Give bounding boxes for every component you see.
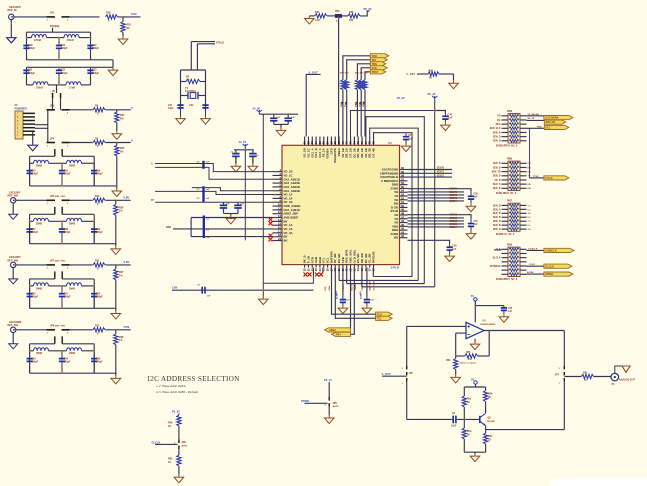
svg-text:2N4B: 2N4B: [69, 165, 75, 168]
wire TP45 upper: [365, 72, 370, 80]
wire opamp gnd stub: [474, 339, 476, 342]
flag CLK A: [544, 264, 572, 268]
junction: [58, 59, 60, 61]
svg-text:51: 51: [401, 200, 404, 204]
pin 36 of U4 (bottom): [365, 265, 367, 268]
svg-text:24: 24: [318, 268, 322, 271]
wire A_OUT net down: [406, 326, 408, 366]
pin 28 of U4 (bottom): [334, 265, 336, 268]
wire emitter out: [486, 429, 565, 431]
wire to C56: [468, 189, 471, 192]
resistor R25: [115, 145, 119, 156]
wire opamp output: [484, 330, 564, 332]
wire bus d horizontal: [362, 286, 435, 288]
svg-text:SEN72: SEN72: [437, 175, 445, 177]
svg-text:62: 62: [306, 141, 310, 144]
pin 2 of J1: [23, 116, 35, 118]
pin 4 of U4 (left): [273, 182, 283, 184]
svg-text:SDA: SDA: [328, 285, 331, 290]
wire: [463, 419, 465, 428]
wire stub: [52, 28, 54, 32]
wire: [456, 355, 465, 357]
wire: [81, 84, 91, 86]
wire: [115, 244, 117, 247]
svg-text:SEN_B: SEN_B: [493, 188, 501, 190]
svg-text:SDB82: SDB82: [450, 221, 458, 223]
power 5V transistor: [474, 381, 477, 384]
pin 18 of U4 (left): [273, 236, 283, 238]
wire stub f: [322, 268, 324, 273]
svg-text:13: 13: [278, 214, 281, 218]
wire bottom rail to ground: [94, 307, 116, 309]
pin 1 of J1: [23, 113, 35, 115]
svg-text:55: 55: [401, 185, 404, 189]
pin 52 of U4 (right): [400, 199, 408, 201]
capacitor C20: [87, 38, 93, 60]
wire crystal right: [205, 70, 207, 108]
wire to ground: [94, 185, 117, 187]
wire FB junction down to U4 pin: [338, 18, 340, 146]
wire RN8 row 5 left: [502, 183, 509, 185]
svg-text:10uF: 10uF: [451, 426, 457, 428]
wire: [47, 37, 65, 39]
svg-text:1M: 1M: [186, 79, 189, 82]
wire filter A top rail: [27, 31, 91, 33]
wire RN9 row 3 right: [520, 127, 527, 129]
pin 11 of U4 (left): [273, 209, 283, 211]
wire filter top rail left: [30, 278, 55, 280]
wire to connector: [594, 376, 611, 378]
capacitor C25: [59, 163, 65, 186]
svg-text:400pF: 400pF: [64, 172, 71, 175]
svg-text:TB: TB: [528, 176, 531, 178]
svg-text:SDB70: SDB70: [450, 189, 458, 191]
resistor R60: [345, 80, 349, 90]
wire RN9 row 5 right: [520, 136, 527, 138]
flag 3.3V NENA: [544, 116, 573, 120]
wire to ground stub: [91, 59, 114, 61]
svg-text:R58: R58: [349, 11, 354, 14]
svg-text:5V: 5V: [471, 377, 474, 381]
wire RN9 row 2 right: [520, 123, 527, 125]
wire: [112, 60, 114, 68]
wire RN8 row 2 right: [520, 171, 527, 173]
svg-text:20: 20: [303, 268, 307, 271]
capacitor C30: [27, 286, 33, 308]
junction: [262, 289, 264, 291]
wire bus a horizontal: [339, 279, 418, 281]
svg-text:100pF: 100pF: [31, 296, 38, 299]
jumper JP4: [47, 142, 70, 144]
capacitor C26: [91, 163, 97, 186]
svg-text:SENSARRAY_NC_9: SENSARRAY_NC_9: [496, 145, 518, 148]
pin 66 of U4 (top): [323, 137, 325, 146]
wire: [342, 15, 348, 17]
wire: [485, 444, 487, 452]
wire filter left edge: [29, 279, 31, 308]
svg-text:48: 48: [401, 211, 404, 215]
resistor network RN6: [508, 247, 520, 276]
wire RN8 row 3 left: [502, 175, 509, 177]
wire: [280, 124, 282, 127]
wire filter left edge: [29, 214, 31, 243]
svg-text:SEN71: SEN71: [437, 172, 445, 174]
capacitor C24: [27, 163, 33, 186]
inductor L11: [34, 348, 49, 351]
svg-text:1uF: 1uF: [508, 311, 513, 313]
svg-text:RN9: RN9: [507, 110, 513, 113]
capacitor C47: [285, 118, 292, 121]
svg-text:26: 26: [326, 268, 330, 271]
wire run join: [47, 110, 49, 143]
wire RN6 row 5 left: [502, 269, 509, 271]
svg-text:1nF: 1nF: [206, 237, 211, 239]
svg-text:A_OUT: A_OUT: [309, 70, 318, 74]
flag TCL: [376, 316, 393, 320]
wire xtal a: [191, 41, 215, 43]
pin 75 of U4 (top): [357, 137, 359, 146]
wire: [49, 162, 67, 164]
wire bias top rail: [464, 386, 485, 388]
svg-text:OPA4330ADBV: OPA4330ADBV: [480, 323, 496, 326]
ground: [449, 81, 459, 89]
wire to flag ACB: [527, 273, 544, 275]
wire: [49, 220, 67, 222]
flag A6N4: [325, 328, 351, 332]
pin 37 of U4 (bottom): [369, 265, 371, 268]
svg-text:SEN_B: SEN_B: [493, 217, 501, 219]
svg-text:VD_B: VD_B: [494, 180, 500, 182]
wire bus H1 to PA_3V: [351, 111, 435, 137]
svg-text:BAT_FRG: BAT_FRG: [55, 260, 65, 263]
svg-text:A_OUT: A_OUT: [382, 372, 391, 376]
svg-text:5 CLK: 5 CLK: [545, 176, 553, 180]
wire filter top rail right: [62, 278, 94, 280]
svg-text:C60: C60: [508, 308, 513, 310]
wire to C58: [408, 240, 450, 244]
wire filter bottom rail: [30, 372, 95, 374]
wire: [105, 142, 130, 144]
svg-text:2K: 2K: [467, 401, 470, 404]
pin 32 of U4 (bottom): [350, 265, 352, 268]
pin 74 of U4 (top): [353, 137, 355, 146]
inductor L3: [33, 82, 48, 85]
svg-text:1K: 1K: [488, 438, 491, 441]
wire: [237, 202, 239, 205]
inductor L6: [67, 160, 82, 163]
svg-text:42: 42: [401, 234, 404, 238]
pin 61 of U4 (top): [304, 137, 306, 146]
junction emitter: [485, 429, 487, 431]
pin 42 of U4 (right): [400, 237, 408, 239]
svg-text:1nF: 1nF: [206, 189, 211, 191]
svg-text:SEN_B: SEN_B: [493, 184, 501, 186]
wire to C44: [435, 111, 446, 113]
resistor R11: [93, 263, 105, 267]
wire rail: [62, 155, 94, 157]
wire: [328, 382, 330, 397]
wire: [116, 186, 118, 189]
wire filter B top rail: [27, 66, 114, 68]
svg-text:RB8: RB8: [166, 226, 171, 229]
pin 54 of U4 (right): [400, 191, 408, 193]
svg-text:37: 37: [368, 268, 372, 271]
wire filter right: [93, 156, 95, 186]
svg-text:100pF: 100pF: [31, 172, 38, 175]
svg-text:100pF: 100pF: [96, 360, 103, 363]
svg-text:BLKTB: BLKTB: [352, 283, 354, 291]
wire bottom rail to ground: [94, 243, 116, 245]
wire crystal left: [180, 70, 182, 108]
wire: [70, 109, 93, 111]
wire: [115, 265, 117, 269]
resistor R53 feedback: [465, 354, 478, 358]
svg-text:TP45: TP45: [537, 126, 543, 129]
wire J1 to ground: [32, 132, 34, 145]
svg-text:47: 47: [401, 215, 404, 219]
svg-text:A2_8V: A2_8V: [253, 107, 261, 110]
svg-text:5-8B/CLK: 5-8B/CLK: [545, 249, 557, 253]
ground opamp: [470, 342, 480, 350]
wire PA_3V vertical: [434, 100, 436, 287]
wire: [115, 308, 117, 311]
wire: [70, 264, 93, 266]
jumper JP6: [47, 200, 70, 202]
svg-text:100pF: 100pF: [96, 172, 103, 175]
svg-text:P2_6V: P2_6V: [397, 96, 405, 100]
wire A_OUT: [382, 375, 407, 377]
svg-text:5V: 5V: [471, 294, 474, 298]
svg-text:45: 45: [401, 223, 404, 227]
wire TP41 upper: [343, 56, 370, 80]
svg-text:SDB73: SDB73: [450, 198, 458, 200]
resistor network RN7: [508, 203, 520, 231]
pin 24 of U4 (bottom): [319, 265, 321, 268]
svg-text:V5_5BLAB: V5_5BLAB: [528, 113, 540, 116]
pin 34 of U4 (bottom): [357, 265, 359, 268]
power A2_8V tap1: [253, 107, 263, 114]
wire GLCLK: [155, 443, 177, 445]
wire junction to bottom rail: [115, 280, 117, 308]
capacitor C18: [23, 38, 29, 60]
wire: [181, 81, 187, 83]
svg-text:C42: C42: [189, 104, 194, 107]
svg-text:VD: VD: [497, 116, 501, 118]
svg-text:SDB80: SDB80: [450, 215, 458, 217]
svg-text:JP9: JP9: [182, 441, 187, 444]
wire RN8 row 0 left: [502, 162, 509, 164]
svg-text:58: 58: [401, 174, 404, 178]
power 5V opamp: [474, 298, 477, 301]
wire out: [564, 376, 581, 378]
wire filter A right: [90, 32, 92, 60]
X marks unused pins left 2: [269, 234, 273, 242]
pin 67 of U4 (top): [327, 137, 329, 146]
svg-text:54: 54: [401, 189, 404, 193]
junction: [61, 285, 63, 287]
flag 5-8B CLK: [544, 248, 574, 252]
svg-text:0.8V: 0.8V: [131, 12, 137, 16]
pin 30 of U4 (bottom): [342, 265, 344, 268]
wire filter left edge: [29, 344, 31, 373]
svg-text:75: 75: [356, 141, 360, 144]
wire: [82, 350, 95, 352]
capacitor C46: [270, 118, 277, 121]
capacitor C61: [452, 416, 458, 424]
wire RN7 row 1 left: [502, 208, 509, 210]
jumper JP8: [47, 329, 70, 331]
wire U4 left row E: [155, 201, 272, 203]
wire jumper to base: [406, 381, 408, 419]
pin 62 of U4 (top): [307, 137, 309, 146]
wire stub c: [372, 268, 374, 277]
resistor R61: [355, 80, 359, 90]
pin 63 of U4 (top): [311, 137, 313, 146]
svg-text:REF_INA: REF_INA: [8, 324, 19, 327]
svg-text:3.3V NENA: 3.3V NENA: [545, 116, 559, 120]
resistor R27: [114, 269, 118, 280]
wire: [287, 122, 289, 125]
wire RN6 row 6 left: [502, 273, 509, 275]
resistor R50: [177, 455, 181, 466]
wire: [200, 81, 206, 83]
wire RN8 row 0 right: [520, 162, 527, 164]
capacitor C34: [59, 351, 65, 373]
wire A2_8V rail 1: [259, 113, 298, 115]
svg-text:2N4B: 2N4B: [69, 287, 75, 290]
wire: [463, 439, 465, 452]
wire base feed: [407, 418, 452, 420]
wire: [274, 123, 288, 125]
wire U4 right g2 row 3: [408, 223, 465, 225]
svg-text:1-2 Base Addr 0x8A: 1-2 Base Addr 0x8A: [156, 384, 186, 388]
resistor R62: [581, 374, 593, 378]
junction base node: [463, 419, 465, 421]
svg-text:64: 64: [314, 141, 318, 144]
ferrite bead FB8: [335, 14, 342, 17]
wire circle to ground: [12, 333, 14, 344]
capacitor C27: [27, 221, 33, 243]
svg-text:POWERED: POWERED: [15, 108, 28, 111]
svg-text:BG: BG: [497, 120, 501, 122]
wire bottom rail to ground: [94, 372, 116, 374]
junction: [90, 37, 92, 39]
svg-text:1nF: 1nF: [452, 249, 457, 251]
pin 33 of U4 (bottom): [353, 265, 355, 268]
wire: [122, 17, 124, 22]
resistor R24: [115, 112, 119, 123]
svg-text:CB: CB: [528, 163, 532, 165]
svg-text:C_KEY: C_KEY: [407, 72, 416, 76]
wire feedback right: [488, 331, 490, 357]
pin 3 of J1: [23, 120, 35, 122]
wire bus right vertical 1: [373, 133, 412, 277]
svg-text:XTAL8: XTAL8: [216, 40, 225, 44]
ground: [276, 128, 286, 136]
svg-text:1nF: 1nF: [277, 117, 282, 119]
ground: [362, 306, 372, 314]
wire RN7 row 2 right: [520, 212, 527, 214]
resistor R59: [341, 80, 345, 90]
wire filter bottom rail: [30, 307, 95, 309]
capacitor C23: [87, 67, 93, 85]
wire: [475, 384, 477, 387]
svg-text:12: 12: [278, 210, 281, 214]
capacitor C48b: [249, 154, 256, 157]
wire to net label: [105, 199, 130, 201]
testpoint flag TP42: [370, 58, 387, 62]
wire collector: [485, 402, 487, 414]
svg-text:18: 18: [278, 233, 281, 237]
svg-text:SDB81: SDB81: [450, 218, 458, 220]
resistor R58b: [462, 428, 466, 439]
resistor R49: [177, 415, 181, 426]
resistor R28: [114, 334, 118, 345]
svg-text:100pF: 100pF: [64, 296, 71, 299]
svg-text:SENS-NRAY_NC_8: SENS-NRAY_NC_8: [496, 192, 517, 195]
wire TP43 lower: [356, 90, 358, 137]
pin 44 of U4 (right): [400, 229, 408, 231]
wire to flag SCL: [527, 127, 545, 129]
junction: [287, 113, 289, 115]
wire U4 right g2 row 0: [408, 214, 469, 216]
junction: [274, 194, 276, 196]
svg-text:2N4B: 2N4B: [69, 352, 75, 355]
pin 7 of U4 (left): [273, 194, 283, 196]
wire RN9 to RN8 tap: [529, 128, 531, 178]
ground: [466, 204, 476, 212]
flag P64: [332, 332, 351, 336]
ground: [451, 375, 461, 383]
wire A2_8V rail 2: [234, 149, 254, 151]
junction: [61, 350, 63, 352]
ground: [248, 164, 258, 172]
capacitor C49t: [220, 205, 227, 208]
svg-text:1K: 1K: [168, 461, 171, 464]
svg-text:60: 60: [401, 166, 404, 170]
svg-text:400pF: 400pF: [61, 47, 68, 50]
svg-text:RN6: RN6: [507, 244, 513, 247]
jumper JP7: [564, 366, 565, 381]
jumper JP pins to filter: [54, 207, 63, 215]
resistor network RN9: [508, 114, 520, 143]
pin 7 of J1: [23, 134, 35, 136]
svg-text:RN7: RN7: [507, 200, 513, 203]
ground: [176, 116, 186, 124]
wire input: [16, 329, 47, 331]
junction: [61, 220, 63, 222]
wire J1 pin5 to runs: [35, 127, 48, 129]
capacitor C58: [447, 244, 453, 254]
wire U4 right g1 row 1: [408, 191, 465, 193]
svg-text:P8_1V: P8_1V: [324, 378, 332, 382]
capacitor C41: [177, 98, 183, 115]
capacitor C32: [91, 286, 97, 308]
wire RN9 row 4 left: [502, 131, 509, 133]
junction: [274, 171, 276, 173]
wire: [115, 200, 117, 204]
svg-text:JP4: JP4: [50, 137, 55, 140]
wire RN8 row 2 left: [502, 171, 509, 173]
wire RN9 row 6 left: [502, 140, 509, 142]
svg-text:JP7: JP7: [555, 374, 560, 377]
wire U4 right g2 row 4: [408, 226, 465, 228]
wire: [235, 150, 237, 153]
pin 17 of U4 (left): [273, 232, 283, 234]
junction: [93, 350, 95, 352]
svg-text:SEN_B: SEN_B: [493, 221, 501, 223]
svg-text:53: 53: [401, 193, 404, 197]
